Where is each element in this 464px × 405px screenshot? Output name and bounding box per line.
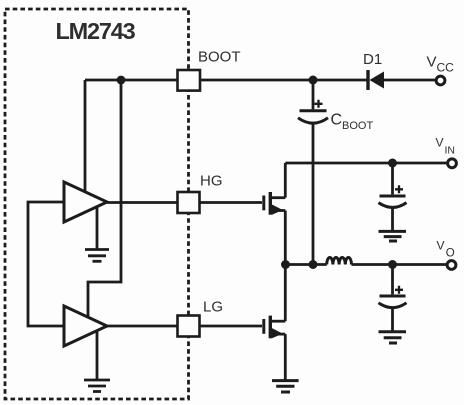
wire LG pin to low-side gate (200, 325, 263, 328)
terminal VO (447, 261, 456, 270)
wire feedback loop connecting driver inputs (28, 202, 64, 326)
wire Q2 source to ground (284, 334, 287, 379)
label VIN (436, 136, 456, 157)
wire VIN rail (285, 162, 448, 165)
ground Q2 source (272, 381, 299, 392)
capacitor output COUT (379, 265, 407, 331)
wire HG pin to high-side gate (200, 201, 263, 204)
wire Q2 drain to switch node (284, 265, 287, 322)
op-amp upper gate driver (HG) (64, 182, 107, 222)
svg-text:LM2743: LM2743 (56, 18, 136, 44)
svg-text:BOOT: BOOT (342, 120, 373, 132)
IC LM2743 dashed boundary box (5, 9, 189, 399)
svg-text:V: V (437, 239, 445, 253)
svg-text:HG: HG (200, 173, 223, 190)
ground output cap (379, 332, 407, 343)
wire BOOT rail right segment (200, 79, 367, 82)
svg-text:IN: IN (445, 144, 456, 156)
op-amp lower gate driver (LG) (64, 306, 107, 346)
wire Q1 drain to VIN rail (284, 163, 287, 198)
wire vertical from BOOT dot down with jog to lower driver (88, 80, 121, 318)
svg-text:CC: CC (437, 61, 455, 75)
svg-text:V: V (427, 54, 437, 71)
ground upper driver (85, 207, 109, 262)
transistor Q1 high-side NMOS (264, 192, 286, 215)
wire lower driver output to LG pin (107, 325, 178, 328)
svg-text:V: V (436, 136, 444, 150)
node junction dot VO/Cout (388, 260, 397, 269)
capacitor CBOOT (298, 80, 328, 123)
wire switch node rail (285, 263, 326, 266)
terminal VCC (436, 76, 445, 85)
transistor Q2 low-side NMOS (264, 316, 286, 339)
svg-text:BOOT: BOOT (198, 49, 241, 66)
label VO (437, 239, 455, 260)
wire diode to VCC (384, 79, 437, 82)
wire upper driver output to HG pin (107, 201, 178, 204)
pin LG (178, 316, 200, 337)
ground lower driver (84, 331, 110, 392)
node junction dot at BOOT rail x=121 (117, 76, 126, 85)
wire BOOT rail left segment (85, 79, 178, 82)
label CBOOT (331, 112, 374, 133)
pin HG (178, 192, 200, 213)
inductor L1 (327, 257, 352, 264)
svg-text:D1: D1 (363, 51, 382, 68)
node junction dot VIN/Cin (388, 159, 397, 168)
node junction dot at BOOT/CBOOT x=313 (309, 76, 318, 85)
label VCC (427, 54, 455, 75)
terminal VIN (448, 159, 457, 168)
node junction dot switch node at CBOOT (309, 260, 318, 269)
ground input cap (379, 231, 407, 241)
svg-text:C: C (331, 112, 343, 129)
svg-text:O: O (446, 248, 455, 260)
diode D1 (368, 70, 384, 90)
wire Q1 source to switch node (284, 211, 287, 265)
wire inductor to VO (352, 263, 449, 266)
wire CBOOT bottom to switch node (312, 124, 315, 265)
svg-text:LG: LG (203, 299, 223, 316)
node junction dot switch node at Q1 source (281, 260, 290, 269)
wire vertical supply to upper driver (84, 80, 87, 192)
capacitor input CIN (379, 163, 407, 230)
pin BOOT (178, 70, 201, 91)
